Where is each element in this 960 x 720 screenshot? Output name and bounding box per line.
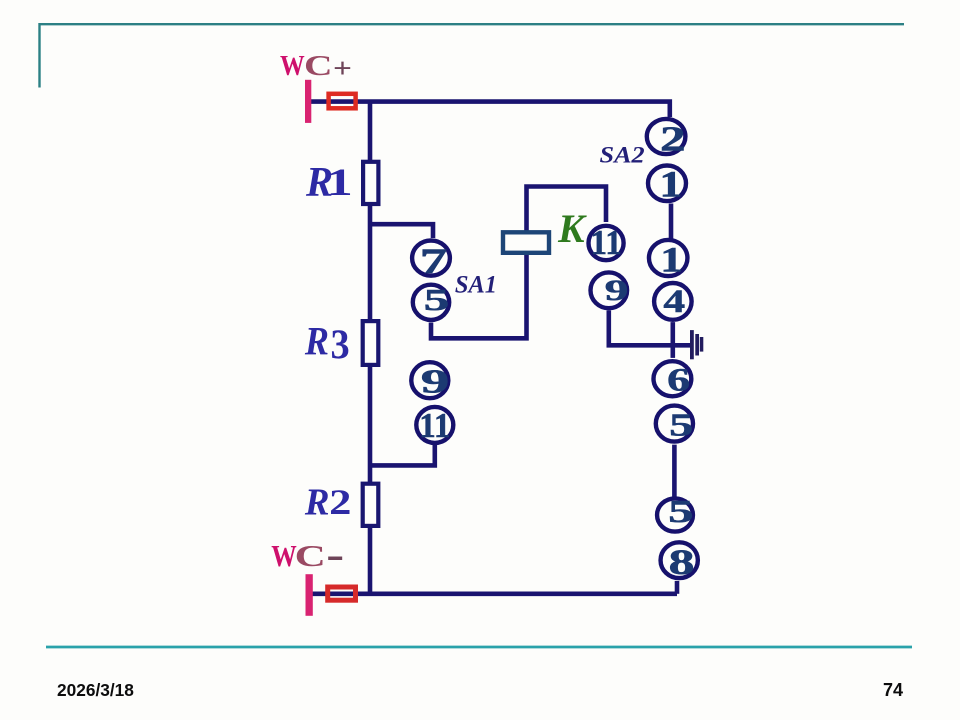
svg-text:5: 5: [424, 284, 450, 318]
svg-text:R: R: [304, 319, 329, 363]
svg-text:–: –: [328, 526, 343, 582]
svg-text:C: C: [304, 50, 333, 82]
svg-text:74: 74: [883, 680, 903, 700]
svg-text:W: W: [280, 49, 305, 81]
svg-text:3: 3: [331, 321, 350, 368]
svg-text:2026/3/18: 2026/3/18: [57, 680, 134, 700]
svg-text:9: 9: [605, 274, 629, 307]
svg-text:C: C: [295, 540, 326, 574]
svg-text:6: 6: [667, 362, 690, 398]
svg-text:1: 1: [660, 240, 682, 280]
svg-text:5: 5: [669, 408, 693, 443]
svg-text:4: 4: [663, 284, 685, 319]
svg-text:2: 2: [660, 119, 686, 158]
svg-text:1: 1: [659, 164, 682, 205]
svg-text:2: 2: [329, 482, 351, 522]
svg-text:11: 11: [419, 407, 450, 445]
svg-text:9: 9: [421, 363, 450, 401]
svg-text:1: 1: [327, 161, 353, 204]
svg-text:5: 5: [668, 494, 693, 529]
svg-text:W: W: [271, 540, 297, 574]
svg-text:11: 11: [591, 224, 622, 262]
svg-text:R: R: [304, 482, 330, 524]
svg-text:K: K: [557, 206, 587, 251]
svg-text:SA1: SA1: [455, 271, 497, 298]
svg-text:+: +: [333, 53, 352, 83]
svg-text:7: 7: [420, 242, 447, 281]
svg-text:SA2: SA2: [600, 143, 645, 168]
svg-text:8: 8: [669, 541, 695, 582]
